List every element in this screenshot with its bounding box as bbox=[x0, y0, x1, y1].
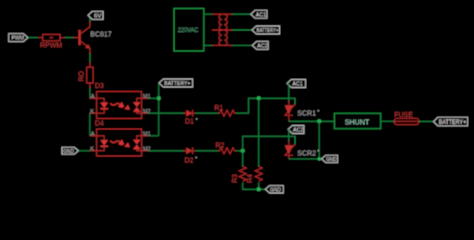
opto-triac D3 bbox=[90, 83, 151, 118]
node AC1 flag top bbox=[251, 10, 267, 18]
wire cathode node down to GND bbox=[318, 121, 320, 159]
svg-text:GND: GND bbox=[326, 157, 337, 163]
svg-text:R1: R1 bbox=[214, 105, 223, 112]
node BATTERY+ flag top bbox=[252, 26, 280, 34]
svg-text:M1: M1 bbox=[143, 94, 151, 100]
wire BATTERY+ to M1 pins bbox=[158, 84, 160, 136]
svg-text:RPWM: RPWM bbox=[40, 42, 62, 49]
svg-text:D2: D2 bbox=[185, 157, 194, 164]
wire R2 to junction bbox=[236, 150, 243, 152]
svg-text:BATTERY+: BATTERY+ bbox=[439, 120, 467, 126]
wire SCR1 cathode to shunt row bbox=[289, 120, 335, 122]
fuse FUSE bbox=[394, 112, 419, 125]
node PWM flag bbox=[9, 34, 28, 42]
shunt box SHUNT bbox=[334, 113, 380, 128]
svg-text:SHUNT: SHUNT bbox=[345, 117, 370, 126]
node AC2 flag top bbox=[252, 41, 268, 49]
wire secondary top to AC1 bbox=[232, 13, 251, 15]
node AC2 flag right bbox=[288, 126, 304, 134]
wire RPWM to Q1 base bbox=[65, 37, 74, 39]
wire emitter to RO bbox=[89, 54, 91, 63]
svg-text:SCR1: SCR1 bbox=[297, 111, 316, 118]
node BATTERY+ flag mid bbox=[159, 79, 193, 87]
wire FUSE to BATTERY+ bbox=[419, 120, 434, 122]
svg-text:A: A bbox=[91, 132, 95, 138]
svg-text:R3: R3 bbox=[232, 174, 239, 183]
svg-text:K: K bbox=[90, 146, 94, 152]
junction cathode node bbox=[317, 119, 321, 123]
junction M1 node bbox=[157, 96, 161, 100]
wire SHUNT to FUSE bbox=[381, 120, 395, 122]
wire RO to D3 anode bbox=[89, 88, 91, 98]
svg-text:SCR2: SCR2 bbox=[297, 150, 316, 157]
opto-triac D4 bbox=[90, 121, 151, 156]
svg-text:D4: D4 bbox=[95, 121, 104, 128]
svg-text:AC2: AC2 bbox=[293, 128, 304, 134]
wire AC1 to SCR1 anode bbox=[287, 84, 289, 102]
svg-text:AC1: AC1 bbox=[256, 12, 266, 18]
resistor RPWM bbox=[38, 34, 65, 49]
svg-text:PWM: PWM bbox=[12, 36, 25, 42]
svg-text:M1: M1 bbox=[143, 132, 151, 138]
wire D3-K to D4-A bbox=[89, 113, 91, 136]
wire R2 node down to R3 bbox=[242, 151, 244, 167]
node GND flag left bbox=[62, 147, 90, 155]
wire AC2 to SCR2 anode bbox=[287, 130, 290, 142]
supply box 220VAC bbox=[174, 9, 204, 52]
node GND flag scr2 bbox=[322, 155, 338, 163]
svg-text:A: A bbox=[91, 94, 95, 100]
resistor RO bbox=[78, 62, 93, 88]
wire box to transformer primary top bbox=[204, 13, 212, 15]
thyristor SCR1 bbox=[285, 101, 320, 121]
svg-text:BC817: BC817 bbox=[90, 32, 112, 39]
wire M2-D3 to D1 bbox=[148, 112, 184, 114]
svg-text:M2: M2 bbox=[143, 109, 151, 115]
wire D2 to R2 bbox=[195, 150, 218, 152]
svg-text:6V: 6V bbox=[94, 14, 102, 20]
diode D2 bbox=[184, 148, 197, 165]
wire R2 node to SCR2 gate bbox=[243, 136, 295, 151]
svg-text:GND: GND bbox=[270, 188, 281, 194]
wire D1 to R1 bbox=[195, 112, 218, 114]
wire R1 node down to R4 bbox=[258, 98, 260, 166]
svg-text:BATTERY+: BATTERY+ bbox=[164, 81, 191, 87]
junction R2 node bbox=[241, 149, 245, 153]
wire R1 to SCR1 gate bbox=[236, 98, 295, 113]
svg-text:AC2: AC2 bbox=[257, 44, 268, 50]
svg-text:D3: D3 bbox=[95, 83, 104, 90]
wire M2-D4 to D2 bbox=[148, 150, 184, 152]
diode D1 bbox=[184, 110, 198, 126]
transformer T1 bbox=[212, 14, 232, 45]
wire M1-D3 to junction bbox=[148, 97, 158, 99]
svg-text:R2: R2 bbox=[216, 143, 225, 150]
svg-text:FUSE: FUSE bbox=[394, 112, 413, 119]
node 6V flag bbox=[88, 11, 103, 21]
node GND flag bottom bbox=[265, 186, 283, 194]
junction SCR2 gnd node bbox=[318, 157, 321, 160]
svg-text:R4: R4 bbox=[247, 174, 254, 183]
resistor R4 bbox=[247, 167, 262, 184]
svg-text:D1: D1 bbox=[185, 119, 194, 126]
thyristor SCR2 bbox=[285, 141, 320, 159]
wire SCR2 cathode to GND bbox=[289, 158, 322, 160]
junction R4 gnd bbox=[257, 187, 261, 191]
svg-text:GND: GND bbox=[63, 149, 74, 155]
svg-text:K: K bbox=[90, 109, 94, 115]
svg-text:220VAC: 220VAC bbox=[178, 27, 199, 34]
resistor R3 bbox=[232, 167, 246, 184]
node AC1 flag right bbox=[287, 80, 306, 88]
svg-text:BATTERY+: BATTERY+ bbox=[257, 28, 279, 34]
wire box to transformer primary bottom bbox=[204, 44, 212, 46]
wire PWM to RPWM bbox=[28, 37, 38, 39]
junction R1 node bbox=[257, 96, 261, 100]
svg-text:M2: M2 bbox=[143, 146, 151, 152]
wire secondary tap to BATTERY+ bbox=[232, 29, 252, 31]
resistor R1 bbox=[214, 105, 236, 116]
transistor Q1 BC817 bbox=[74, 22, 112, 54]
resistor R2 bbox=[216, 143, 236, 154]
wire M1-D4 to junction bbox=[148, 135, 158, 137]
wire R3 R4 to GND row bbox=[243, 182, 266, 189]
node BATTERY+ flag right bbox=[434, 117, 468, 126]
svg-text:AC1: AC1 bbox=[292, 82, 303, 88]
wire secondary bottom to AC2 bbox=[232, 44, 252, 46]
svg-text:RO: RO bbox=[78, 70, 85, 81]
